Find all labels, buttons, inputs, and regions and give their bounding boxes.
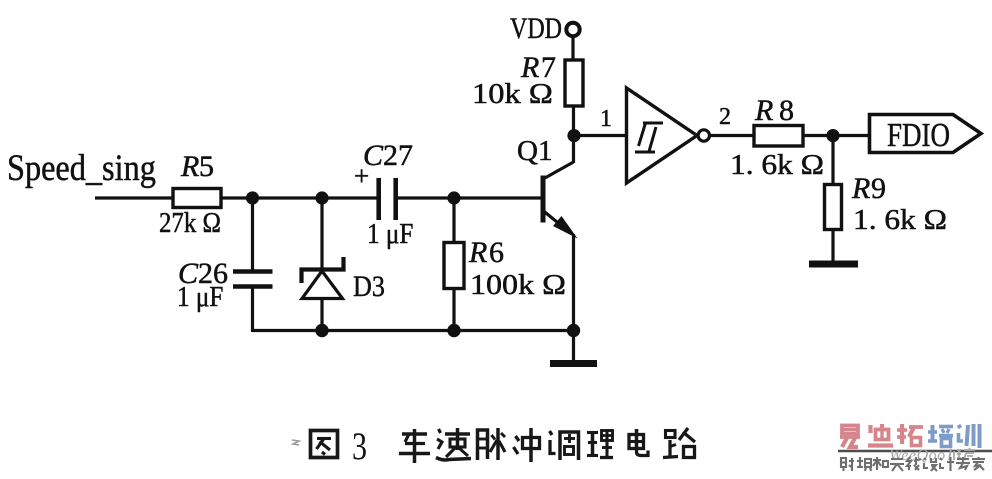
svg-text:VDD: VDD	[510, 11, 562, 44]
svg-text:Speed_sing: Speed_sing	[7, 147, 156, 189]
svg-text:FDIO: FDIO	[887, 116, 950, 154]
svg-text:1 μF: 1 μF	[177, 281, 223, 313]
svg-text:5: 5	[199, 150, 214, 183]
svg-text:9: 9	[871, 172, 886, 205]
svg-text:+: +	[354, 161, 369, 191]
svg-text:1 μF: 1 μF	[367, 218, 413, 250]
svg-text:2: 2	[719, 104, 731, 130]
svg-text:R: R	[468, 236, 487, 269]
svg-text:27: 27	[383, 139, 413, 172]
svg-text:6: 6	[489, 236, 504, 269]
svg-text:R: R	[851, 172, 870, 205]
svg-text:100k Ω: 100k Ω	[470, 268, 566, 300]
svg-text:R: R	[754, 94, 773, 127]
svg-text:27k Ω: 27k Ω	[159, 206, 221, 238]
svg-text:1. 6k Ω: 1. 6k Ω	[730, 148, 824, 181]
svg-text:8: 8	[779, 94, 794, 127]
svg-text:D3: D3	[353, 270, 385, 303]
svg-text:Q1: Q1	[517, 135, 552, 167]
svg-text:1. 6k Ω: 1. 6k Ω	[853, 203, 947, 236]
svg-text:WeeQoo: WeeQoo	[889, 447, 946, 464]
svg-text:1: 1	[600, 106, 612, 132]
svg-text:R: R	[180, 150, 199, 183]
svg-text:3: 3	[352, 424, 367, 468]
svg-text:10k Ω: 10k Ω	[472, 78, 553, 110]
